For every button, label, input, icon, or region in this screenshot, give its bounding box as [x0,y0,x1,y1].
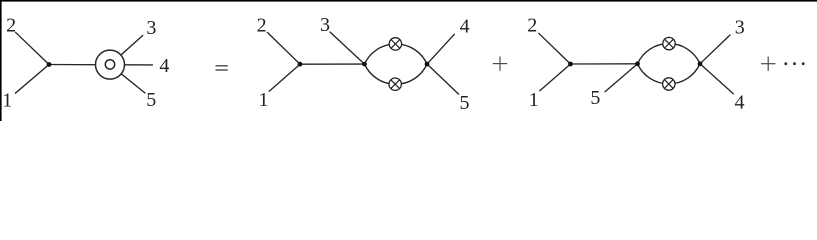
svg-text:3: 3 [146,17,156,39]
external leg 5 wire (diagram 3) [605,64,638,92]
left rule of cropped page box [0,0,2,121]
loop bubble bottom arc (diagram 3) [638,64,701,84]
external leg 1 wire (diagram 1) [15,65,49,94]
external leg 4 wire (diagram 3) [700,64,733,94]
svg-text:2: 2 [257,14,267,36]
external leg 2 wire (diagram 3) [539,33,571,64]
svg-text:1: 1 [529,89,539,111]
external leg 5 wire (diagram 1) [110,65,145,93]
svg-text:4: 4 [460,16,470,38]
crossed-circle insertion, top (diagram 2) [389,38,401,50]
crossed-circle insertion, top (diagram 3) [663,37,675,49]
loop bubble bottom arc (diagram 2) [365,64,428,84]
svg-text:1: 1 [259,89,269,111]
right bubble vertex dot (diagram 2) [425,62,430,67]
propagator wire from vertex to blob (diagram 1) [49,64,110,66]
blob outer circle (diagram 1) [96,50,125,79]
trailing plus sign [761,57,775,71]
right bubble vertex dot (diagram 3) [698,61,703,66]
left bubble vertex dot (diagram 2) [362,62,367,67]
propagator wire from left vertex to bubble (diagram 3) [571,63,638,65]
svg-text:1: 1 [2,89,12,111]
svg-text:3: 3 [320,14,330,36]
svg-text:2: 2 [527,14,537,36]
propagator wire from left vertex to bubble (diagram 2) [300,63,365,65]
external leg 3 wire (diagram 1) [110,36,143,65]
svg-text:2: 2 [6,14,16,36]
crossed-circle insertion, bottom (diagram 2) [389,78,401,90]
crossed-circle insertion, bottom (diagram 3) [663,78,675,90]
external leg 1 wire (diagram 3) [540,64,571,91]
svg-text:5: 5 [460,92,470,114]
external leg 4 wire (diagram 2) [427,34,454,64]
svg-text:4: 4 [159,55,169,77]
interaction vertex dot (diagram 1) [47,62,52,67]
svg-text:3: 3 [735,16,745,38]
svg-text:5: 5 [146,89,156,111]
loop bubble (diagram 3) [638,44,701,64]
top rule of cropped page box [0,0,817,2]
left bubble vertex dot (diagram 3) [635,61,640,66]
equals sign [216,65,228,66]
external leg 4 wire (diagram 1) [110,64,152,66]
blob inner circle (diagram 1) [105,60,114,69]
left tree vertex dot (diagram 3) [568,62,573,67]
external leg 3 wire (diagram 2) [330,32,365,64]
svg-text:4: 4 [735,91,745,113]
external leg 1 wire (diagram 2) [269,64,300,91]
ellipsis dots [784,62,787,65]
left tree vertex dot (diagram 2) [298,62,303,67]
external leg 2 wire (diagram 2) [268,33,301,65]
external leg 3 wire (diagram 3) [700,35,730,64]
external leg 5 wire (diagram 2) [427,64,459,94]
svg-text:5: 5 [590,87,600,109]
external leg 2 wire (diagram 1) [16,32,50,64]
plus sign [493,56,507,70]
loop bubble (diagram 2) [365,44,428,64]
